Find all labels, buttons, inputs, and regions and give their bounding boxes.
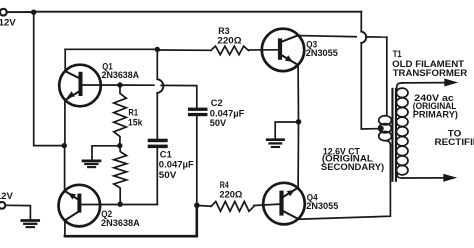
node R3/C1 junction	[155, 47, 160, 52]
node Q3/Q4 emitter junction	[296, 119, 302, 125]
svg-text:RECTIFIER: RECTIFIER	[435, 137, 474, 148]
svg-text:2N3638A: 2N3638A	[101, 218, 140, 229]
svg-text:220Ω: 220Ω	[217, 36, 242, 47]
transistor Q1 circle	[59, 65, 101, 107]
transistor Q4 emitter arrow	[287, 190, 295, 197]
wire primary bottom exit	[385, 141, 390, 146]
svg-text:15k: 15k	[128, 117, 143, 128]
terminal +12V	[0, 9, 7, 16]
wire top +12V rail	[34, 11, 362, 13]
transistor Q2 emitter arrow	[68, 193, 76, 200]
svg-text:+12V: +12V	[0, 17, 16, 28]
wire vertical from R3 junction down	[156, 49, 158, 79]
wire hop down to C1	[156, 93, 158, 139]
svg-text:2N3055: 2N3055	[306, 201, 339, 212]
ground G1	[83, 160, 100, 163]
wire Q2 base run to C1	[81, 204, 157, 206]
transistor Q2 collector diagonal	[65, 212, 79, 221]
transistor Q4 collector diagonal	[284, 211, 299, 219]
svg-text:–12V: –12V	[0, 191, 14, 202]
transistor Q1 collector diagonal	[65, 71, 80, 78]
svg-text:2N3055: 2N3055	[306, 48, 339, 59]
transformer T1 primary (left) coil	[379, 116, 392, 125]
node R1/R2 junction	[117, 143, 122, 148]
wire node to R4	[197, 205, 211, 208]
svg-text:50V: 50V	[159, 170, 177, 181]
transistor Q2 base bar	[77, 194, 81, 213]
ground G3	[22, 219, 39, 222]
transistor Q4 circle	[263, 183, 305, 225]
wire Q4 emitter lead from junction	[297, 122, 299, 188]
wire R4 to Q4 base	[254, 204, 280, 205]
terminal -12V	[0, 202, 5, 209]
wire Q1 base run (right of hop) to C2	[161, 85, 197, 107]
wire -12V to ground G3	[6, 205, 31, 219]
svg-text:PRIMARY): PRIMARY)	[413, 109, 458, 120]
node R1 top junction	[117, 82, 122, 87]
ground G2	[267, 138, 283, 141]
transistor Q3 base bar	[278, 38, 282, 59]
node center tap	[378, 126, 384, 132]
wire crossover hop right rail	[361, 32, 366, 43]
wire junction to R3	[157, 49, 211, 51]
svg-text:SECONDARY): SECONDARY)	[321, 162, 384, 173]
arrow top output	[444, 79, 458, 87]
wire left rail down from +12V junction	[34, 12, 65, 145]
transistor Q4 emitter diagonal	[284, 188, 298, 197]
node emitter tie junction	[62, 143, 67, 148]
transformer T1 secondary (right) coil	[396, 88, 408, 97]
svg-text:TRANSFORMER: TRANSFORMER	[393, 68, 468, 79]
transistor Q3 emitter diagonal	[282, 55, 298, 65]
wire Q3 emitter down	[297, 65, 299, 122]
wire Q1 collector to R3	[65, 48, 157, 50]
wire C1 bottom to Q2 base	[156, 148, 158, 204]
transistor Q3 emitter arrow	[285, 55, 293, 62]
capacitor C2 plates	[188, 108, 208, 111]
wire junction to ground G2	[275, 122, 298, 138]
transistor Q1 emitter diagonal	[65, 91, 80, 100]
arrow bottom output	[443, 174, 457, 182]
wire secondary top output	[397, 83, 402, 91]
wire junction to ground G1	[92, 146, 120, 160]
resistor R1	[114, 85, 127, 146]
transistor Q4 base bar	[279, 191, 283, 216]
wire terminal to junction	[7, 11, 34, 13]
wire Q4 collector to transformer	[298, 145, 390, 220]
transistor Q3 collector diagonal	[282, 35, 298, 41]
wire Q1 collector lead up	[64, 49, 66, 71]
node R2 bottom junction	[118, 202, 123, 207]
wire crossover hop	[157, 79, 163, 93]
transistor Q1 emitter arrow	[67, 91, 75, 98]
transistor Q1 base bar	[79, 72, 83, 96]
resistor R2	[114, 146, 127, 204]
wire Q1 emitter lead down to tie	[64, 100, 66, 145]
transformer T1 core	[391, 88, 393, 182]
wire Q3 collector to transformer	[298, 36, 356, 37]
transistor Q2 circle	[59, 185, 101, 227]
node R4/C2 junction	[194, 203, 200, 209]
transistor Q3 circle	[262, 29, 304, 71]
wire R3 to Q3 base	[248, 49, 278, 51]
resistor R4	[211, 202, 254, 212]
capacitor C1 plates	[148, 139, 168, 143]
svg-text:220Ω: 220Ω	[219, 190, 242, 201]
transistor Q2 emitter diagonal	[65, 191, 79, 200]
wire Q3 collector down to primary top	[385, 37, 387, 116]
wire bottom rail Q2 collector to R4 node	[65, 205, 197, 236]
wire Q2 collector lead down	[64, 220, 66, 236]
wire Q2 emitter lead from tie	[64, 146, 66, 191]
svg-text:50V: 50V	[210, 118, 227, 129]
svg-text:2N3638A: 2N3638A	[102, 70, 140, 81]
node +12V junction	[31, 10, 36, 15]
resistor R3	[211, 46, 249, 55]
wire secondary bottom output	[397, 172, 402, 178]
wire C2 bottom to R4 node	[196, 116, 198, 205]
wire +12V rail down to center tap (with hop)	[360, 12, 362, 32]
wire Q1 base run (left of hop)	[82, 84, 154, 86]
